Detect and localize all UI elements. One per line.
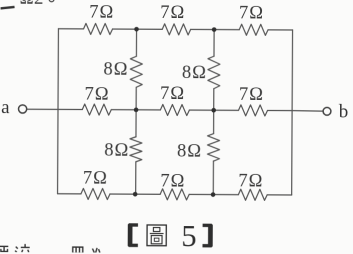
svg-text:7Ω: 7Ω [83, 168, 108, 188]
svg-text:7Ω: 7Ω [239, 3, 264, 23]
svg-text:7Ω: 7Ω [160, 3, 185, 23]
svg-text:b: b [339, 101, 349, 122]
svg-text:7Ω: 7Ω [238, 172, 263, 192]
svg-text:Ω2: Ω2 [20, 0, 44, 9]
svg-text:a: a [1, 97, 10, 118]
svg-text:7Ω: 7Ω [89, 2, 114, 22]
svg-text:8Ω: 8Ω [104, 140, 129, 160]
svg-text:8Ω: 8Ω [177, 142, 202, 162]
svg-text:7Ω: 7Ω [160, 171, 185, 191]
svg-text:7Ω: 7Ω [85, 84, 110, 104]
svg-text:8Ω: 8Ω [182, 63, 207, 83]
svg-text:7Ω: 7Ω [239, 85, 264, 105]
svg-text:7Ω: 7Ω [160, 84, 185, 104]
svg-text:5: 5 [181, 219, 196, 253]
svg-text:8Ω: 8Ω [103, 60, 128, 80]
